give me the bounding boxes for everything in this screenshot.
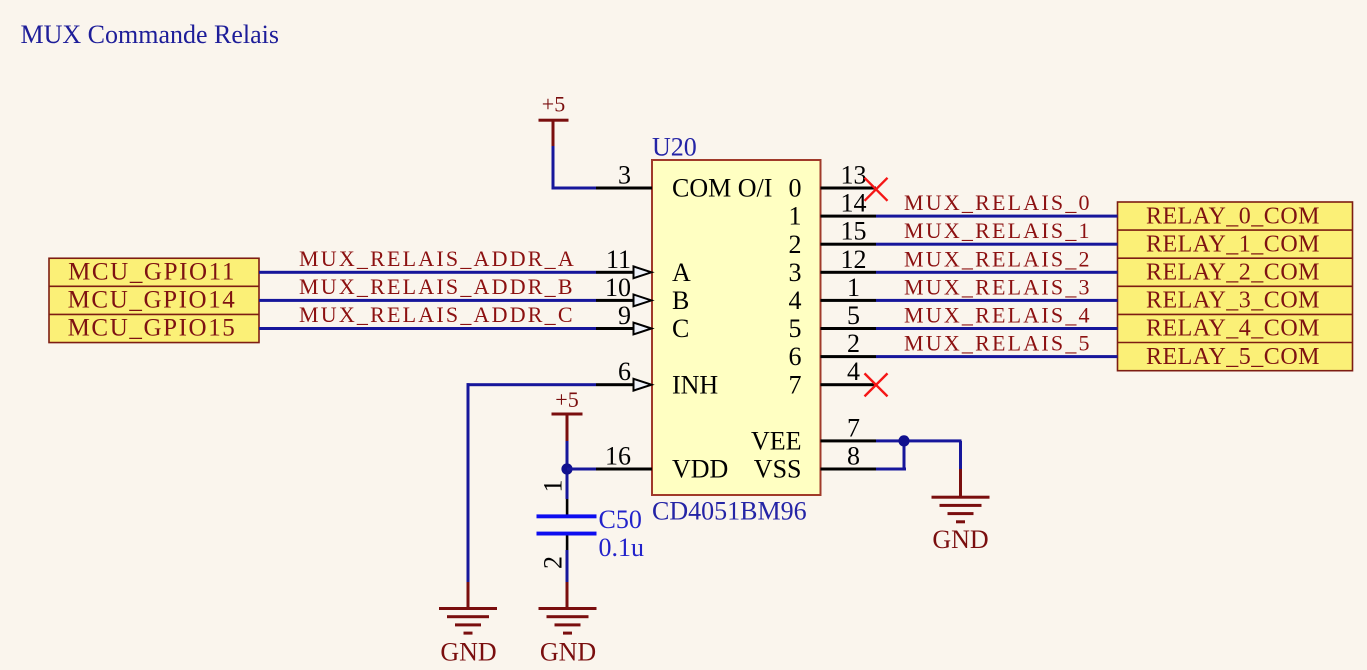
wire VEE down to ground (blue)	[959, 441, 962, 470]
junction at VEE/VSS	[898, 435, 909, 446]
svg-text:RELAY_4_COM: RELAY_4_COM	[1146, 316, 1320, 342]
svg-text:MUX_RELAIS_ADDR_B: MUX_RELAIS_ADDR_B	[299, 274, 575, 299]
svg-text:INH: INH	[672, 370, 718, 399]
wire +5 to pin 3 vertical	[552, 146, 555, 190]
pin 3 stub (left, COM)	[596, 187, 652, 190]
svg-text:MUX_RELAIS_5: MUX_RELAIS_5	[904, 331, 1092, 356]
port MCU_GPIO11/14/15 group box	[49, 258, 259, 342]
pin 2 stub (right, ch6)	[821, 355, 877, 358]
svg-text:9: 9	[618, 301, 631, 330]
svg-text:VSS: VSS	[754, 455, 802, 484]
junction at VDD / C50	[561, 463, 572, 474]
svg-text:RELAY_3_COM: RELAY_3_COM	[1146, 288, 1320, 314]
svg-text:2: 2	[847, 329, 860, 358]
svg-text:13: 13	[841, 161, 867, 190]
svg-text:RELAY_0_COM: RELAY_0_COM	[1146, 203, 1320, 229]
svg-text:1: 1	[789, 202, 802, 231]
svg-text:U20: U20	[652, 133, 697, 162]
pin 12 stub (right, ch3)	[821, 271, 877, 274]
wire INH horizontal	[467, 383, 597, 386]
pin 4 stub (right, ch7)	[821, 383, 877, 386]
capacitor C50	[537, 480, 645, 570]
svg-text:VDD: VDD	[672, 455, 728, 484]
pin 5 stub (right, ch5)	[821, 327, 877, 330]
svg-text:7: 7	[789, 370, 802, 399]
svg-text:C50: C50	[599, 505, 642, 534]
svg-text:MUX Commande Relais: MUX Commande Relais	[21, 20, 280, 49]
svg-text:COM O/I: COM O/I	[672, 174, 772, 203]
svg-text:MUX_RELAIS_0: MUX_RELAIS_0	[904, 190, 1092, 215]
svg-text:MUX_RELAIS_4: MUX_RELAIS_4	[904, 303, 1092, 328]
capacitor C50 pin 2 lead	[566, 536, 569, 551]
svg-text:MUX_RELAIS_ADDR_C: MUX_RELAIS_ADDR_C	[299, 302, 575, 327]
svg-text:0: 0	[789, 174, 802, 203]
pin 8 stub (right, VSS)	[821, 468, 877, 471]
wire MUX_RELAIS_1 (pin 15 to RELAY_1_COM)	[876, 243, 1118, 246]
svg-text:2: 2	[789, 230, 802, 259]
svg-text:A: A	[672, 258, 691, 287]
wire MUX_RELAIS_3 (pin 1 to RELAY_3_COM)	[876, 299, 1118, 302]
svg-text:VEE: VEE	[751, 427, 802, 456]
svg-text:+5: +5	[555, 387, 578, 412]
svg-text:MCU_GPIO11: MCU_GPIO11	[68, 258, 236, 285]
pin 10 stub (left, B) with input arrow	[596, 299, 634, 302]
wire INH ground stem (red)	[467, 582, 470, 609]
wire INH vertical to ground	[467, 383, 470, 582]
svg-text:14: 14	[841, 189, 867, 218]
svg-text:16: 16	[605, 442, 631, 471]
svg-text:+5: +5	[542, 92, 565, 117]
port RELAY_x_COM group box	[1118, 202, 1353, 371]
svg-text:5: 5	[847, 301, 860, 330]
wire MUX_RELAIS_2 (pin 12 to RELAY_2_COM)	[876, 271, 1118, 274]
pin 14 stub (right, ch1)	[821, 215, 877, 218]
wire VSS riser to VEE	[903, 441, 906, 471]
wire C50 ground stem (red)	[566, 582, 569, 609]
svg-text:RELAY_5_COM: RELAY_5_COM	[1146, 344, 1320, 370]
svg-text:GND: GND	[540, 638, 596, 667]
ground GND (right, VEE/VSS)	[932, 496, 990, 554]
svg-text:1: 1	[539, 480, 568, 493]
capacitor C50 pin 1 lead	[566, 499, 569, 515]
svg-text:MUX_RELAIS_1: MUX_RELAIS_1	[904, 218, 1092, 243]
svg-text:6: 6	[618, 357, 631, 386]
svg-text:10: 10	[605, 273, 631, 302]
pin 11 stub (left, A) with input arrow	[596, 271, 634, 274]
svg-text:B: B	[672, 286, 689, 315]
svg-text:11: 11	[606, 245, 631, 274]
power +5 symbol (top)	[539, 92, 569, 147]
pin 9 stub (left, C) with input arrow	[596, 327, 634, 330]
svg-text:4: 4	[789, 286, 802, 315]
svg-text:GND: GND	[440, 638, 496, 667]
wire VDD junction to pin 16	[567, 468, 596, 471]
svg-text:RELAY_1_COM: RELAY_1_COM	[1146, 231, 1320, 257]
svg-text:7: 7	[847, 413, 860, 442]
IC U20 body	[652, 160, 821, 495]
pin 15 stub (right, ch2)	[821, 243, 877, 246]
pin 1 stub (right, ch4)	[821, 299, 877, 302]
svg-text:MUX_RELAIS_ADDR_A: MUX_RELAIS_ADDR_A	[299, 246, 576, 271]
svg-text:5: 5	[789, 314, 802, 343]
svg-text:12: 12	[841, 245, 867, 274]
wire MUX_RELAIS_4 (pin 5 to RELAY_4_COM)	[876, 327, 1118, 330]
wire MUX_RELAIS_0 (pin 14 to RELAY_0_COM)	[876, 215, 1118, 218]
svg-text:MCU_GPIO14: MCU_GPIO14	[68, 286, 237, 313]
svg-text:CD4051BM96: CD4051BM96	[652, 497, 807, 526]
wire MUX_RELAIS_ADDR_B (GPIO14 to pin 10)	[259, 299, 596, 302]
svg-text:2: 2	[539, 556, 568, 569]
wire C50 pin2 to ground	[566, 550, 569, 582]
svg-text:RELAY_2_COM: RELAY_2_COM	[1146, 260, 1320, 286]
wire MUX_RELAIS_ADDR_C (GPIO15 to pin 9)	[259, 327, 596, 330]
wire MUX_RELAIS_5 (pin 2 to RELAY_5_COM)	[876, 355, 1118, 358]
pin 6 stub (left, INH) with input arrow	[596, 383, 634, 386]
svg-text:0.1u: 0.1u	[599, 533, 645, 562]
svg-text:MUX_RELAIS_3: MUX_RELAIS_3	[904, 274, 1092, 299]
ground GND (under C50)	[539, 607, 597, 667]
svg-text:1: 1	[847, 273, 860, 302]
svg-text:4: 4	[847, 357, 860, 386]
no-connect X on pin 4	[865, 373, 888, 396]
svg-text:15: 15	[841, 217, 867, 246]
capacitor C50 plate 1	[537, 514, 597, 518]
wire MUX_RELAIS_ADDR_A (GPIO11 to pin 11)	[259, 271, 596, 274]
capacitor C50 plate 2	[537, 532, 597, 536]
ground GND (left, INH)	[439, 607, 497, 667]
svg-text:3: 3	[618, 161, 631, 190]
wire VSS horizontal	[876, 468, 906, 471]
wire +5 to pin 3 horizontal	[552, 187, 597, 190]
wire VEE ground stem (red)	[959, 469, 962, 497]
wire VEE to ground corner	[876, 439, 962, 442]
no-connect X on pin 13	[865, 178, 888, 201]
pin 13 stub (right, ch0)	[821, 187, 877, 190]
pin 7 stub (right, VEE)	[821, 439, 877, 442]
svg-text:MCU_GPIO15: MCU_GPIO15	[68, 315, 237, 342]
wire +5 down to VDD junction	[566, 441, 569, 499]
power +5 symbol (above C50)	[552, 387, 583, 441]
svg-text:3: 3	[789, 258, 802, 287]
svg-text:8: 8	[847, 442, 860, 471]
pin 16 stub (left, VDD)	[596, 468, 652, 471]
svg-text:6: 6	[789, 342, 802, 371]
svg-text:GND: GND	[932, 525, 988, 554]
svg-text:C: C	[672, 314, 689, 343]
svg-text:MUX_RELAIS_2: MUX_RELAIS_2	[904, 246, 1092, 271]
